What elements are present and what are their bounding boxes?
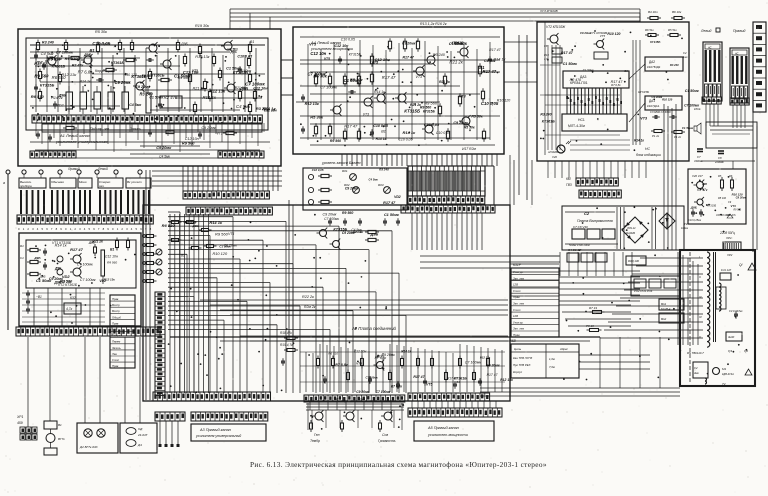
svg-text:С1 50мк: С1 50мк xyxy=(449,42,465,46)
svg-text:R6 510: R6 510 xyxy=(47,57,61,62)
svg-text:R10 120: R10 120 xyxy=(662,97,673,101)
svg-text:R14 1к: R14 1к xyxy=(51,96,63,100)
svg-text:К107ЮД2: К107ЮД2 xyxy=(647,65,661,69)
svg-text:Прав: Прав xyxy=(112,321,119,325)
svg-text:С12 10н: С12 10н xyxy=(310,51,326,56)
svg-text:С7 100мк: С7 100мк xyxy=(237,69,252,73)
svg-text:Корпус: Корпус xyxy=(513,370,523,374)
svg-text:С1: С1 xyxy=(20,256,24,260)
svg-text:2208 50Гц: 2208 50Гц xyxy=(719,231,735,235)
svg-text:3: 3 xyxy=(79,227,81,231)
svg-text:Прк ТРВ РЕЗ: Прк ТРВ РЕЗ xyxy=(513,363,531,367)
svg-text:С9 20мк: С9 20мк xyxy=(156,146,172,150)
svg-text:R10 120: R10 120 xyxy=(497,99,510,103)
svg-text:R1: R1 xyxy=(20,244,24,248)
svg-text:В1: В1 xyxy=(181,254,185,258)
svg-text:R21 2к: R21 2к xyxy=(439,80,450,84)
svg-text:А1 Левый канал: А1 Левый канал xyxy=(59,133,91,138)
svg-text:Д9Б: Д9Б xyxy=(33,256,41,260)
svg-text:R12 13к: R12 13к xyxy=(195,55,209,59)
svg-text:МЛТ-4-30и: МЛТ-4-30и xyxy=(568,124,585,128)
svg-text:5: 5 xyxy=(42,227,44,231)
svg-text:Стоп: Стоп xyxy=(112,358,120,362)
svg-text:Указ ур.: Указ ур. xyxy=(513,320,524,324)
svg-text:С12 10н: С12 10н xyxy=(354,350,367,354)
svg-text:5: 5 xyxy=(136,227,138,231)
svg-text:R21 2к: R21 2к xyxy=(193,86,205,90)
svg-text:С4 5мк: С4 5мк xyxy=(369,177,379,181)
svg-text:R01: R01 xyxy=(342,169,348,173)
svg-text:III: III xyxy=(699,295,702,299)
svg-text:Лев: Лев xyxy=(359,397,365,401)
svg-text:7: 7 xyxy=(98,227,100,231)
svg-text:В4 16л: В4 16л xyxy=(648,10,658,14)
svg-text:R10 120: R10 120 xyxy=(607,32,620,36)
svg-text:КТ361Б: КТ361Б xyxy=(52,65,66,69)
svg-text:С9 20мк: С9 20мк xyxy=(453,121,469,125)
svg-text:КЦ402Б: КЦ402Б xyxy=(626,232,635,235)
svg-text:2: 2 xyxy=(121,227,123,231)
svg-text:С8: С8 xyxy=(544,44,548,48)
svg-text:Зап. лев: Зап. лев xyxy=(513,302,524,306)
svg-text:Подстр. зап.: Подстр. зап. xyxy=(90,127,110,131)
svg-text:R13 1,2к R16 2к: R13 1,2к R16 2к xyxy=(420,22,447,26)
svg-text:С7: С7 xyxy=(697,155,701,159)
svg-text:1: 1 xyxy=(117,227,119,231)
svg-text:С10 0,05: С10 0,05 xyxy=(341,38,355,42)
svg-text:!: ! xyxy=(751,266,752,270)
svg-text:R9 560: R9 560 xyxy=(215,231,229,236)
svg-text:R17 47: R17 47 xyxy=(344,123,358,128)
svg-text:Р1 2к: Р1 2к xyxy=(652,134,660,138)
svg-text:VT3: VT3 xyxy=(363,113,369,117)
svg-text:R5 30к: R5 30к xyxy=(310,114,324,119)
svg-text:V26 V27: V26 V27 xyxy=(692,174,703,178)
svg-text:R17 47: R17 47 xyxy=(383,201,396,205)
svg-text:R5 30к: R5 30к xyxy=(350,77,364,82)
svg-text:С12 10н: С12 10н xyxy=(105,255,118,259)
svg-text:R6 510: R6 510 xyxy=(31,94,45,99)
svg-text:А3 Правый канал: А3 Правый канал xyxy=(199,428,232,432)
svg-text:В1: В1 xyxy=(624,69,628,73)
svg-text:VD9-12: VD9-12 xyxy=(627,227,636,230)
svg-text:8: 8 xyxy=(103,227,105,231)
svg-text:R9 560: R9 560 xyxy=(178,76,189,80)
svg-text:С7 100мк: С7 100мк xyxy=(77,263,93,267)
svg-text:R14 1к: R14 1к xyxy=(209,220,223,225)
svg-text:9В: 9В xyxy=(335,397,339,401)
svg-text:R6 510: R6 510 xyxy=(65,56,79,61)
svg-text:1: 1 xyxy=(70,227,72,231)
svg-text:С9 20мк: С9 20мк xyxy=(98,42,111,46)
svg-text:С9 20мк: С9 20мк xyxy=(402,41,416,45)
svg-text:В1: В1 xyxy=(110,247,114,251)
svg-text:Запись: Запись xyxy=(112,346,121,350)
svg-text:уровень записи Баланс: уровень записи Баланс xyxy=(321,161,361,165)
svg-text:R12 13к: R12 13к xyxy=(61,72,77,77)
svg-text:Цепь: Цепь xyxy=(514,347,522,351)
svg-text:ДА2: ДА2 xyxy=(649,60,655,64)
svg-text:VD2: VD2 xyxy=(394,195,401,199)
svg-text:Б1/2В-4: Б1/2В-4 xyxy=(661,307,671,311)
svg-text:КТ315Б: КТ315Б xyxy=(650,40,660,44)
svg-text:С10 0,25мк: С10 0,25мк xyxy=(688,219,702,222)
svg-text:Ген: Ген xyxy=(314,433,320,437)
svg-text:1: 1 xyxy=(23,227,25,231)
svg-text:3: 3 xyxy=(32,227,34,231)
svg-text:С7 100мк: С7 100мк xyxy=(80,278,96,282)
svg-text:Адрес: Адрес xyxy=(559,347,568,351)
svg-text:R5 30к: R5 30к xyxy=(95,30,107,34)
svg-text:ГВЗ: ГВЗ xyxy=(566,183,572,187)
svg-text:R5 30к: R5 30к xyxy=(464,125,475,129)
svg-text:RS ТВК110-7: RS ТВК110-7 xyxy=(687,351,704,355)
svg-text:ХР1: ХР1 xyxy=(16,415,24,419)
svg-text:R12 13к: R12 13к xyxy=(60,280,72,284)
svg-text:С9 20мк: С9 20мк xyxy=(114,80,131,85)
svg-text:100мк: 100мк xyxy=(681,227,689,230)
svg-text:5: 5 xyxy=(89,227,91,231)
svg-text:VT3: VT3 xyxy=(640,117,647,121)
svg-text:4: 4 xyxy=(131,227,133,231)
svg-text:С9 20мк: С9 20мк xyxy=(382,353,396,357)
svg-text:Правый: Правый xyxy=(68,167,80,171)
svg-text:7,0м: 7,0м xyxy=(549,365,555,369)
svg-text:R2 47к: R2 47к xyxy=(727,213,736,217)
svg-text:С12 10н: С12 10н xyxy=(351,230,363,234)
svg-text:И17 R2м: И17 R2м xyxy=(462,147,476,151)
svg-text:КЗ2: КЗ2 xyxy=(70,296,76,300)
svg-text:Д9Б: Д9Б xyxy=(690,205,698,209)
svg-text:R9 560: R9 560 xyxy=(107,261,117,265)
svg-text:9: 9 xyxy=(107,227,109,231)
svg-text:VT5: VT5 xyxy=(309,43,317,47)
svg-text:R21 2к: R21 2к xyxy=(92,239,103,243)
svg-text:Q3: Q3 xyxy=(728,349,732,353)
svg-text:8: 8 xyxy=(56,227,58,231)
svg-text:Воспр: Воспр xyxy=(112,309,120,313)
svg-text:С9 20мк: С9 20мк xyxy=(135,85,151,89)
svg-text:R14 1к: R14 1к xyxy=(55,244,67,248)
svg-text:С9 20мк: С9 20мк xyxy=(345,187,359,191)
svg-text:R14 1к: R14 1к xyxy=(401,350,411,354)
svg-text:зап.: зап. xyxy=(98,184,105,188)
svg-text:АЛ102Бм: АЛ102Бм xyxy=(547,151,559,154)
svg-text:V: V xyxy=(699,335,702,339)
svg-text:0: 0 xyxy=(18,227,20,231)
svg-text:7: 7 xyxy=(51,227,53,231)
svg-text:R9 560: R9 560 xyxy=(142,74,153,78)
svg-text:R3 240: R3 240 xyxy=(670,63,679,67)
svg-text:К107ДА1: К107ДА1 xyxy=(647,104,660,108)
svg-text:КТ315Б: КТ315Б xyxy=(349,53,362,57)
svg-text:Кан ТРВ ЛУПЗ: Кан ТРВ ЛУПЗ xyxy=(513,356,532,360)
svg-text:С9 20мк: С9 20мк xyxy=(652,95,663,99)
svg-text:4мк: 4мк xyxy=(694,371,699,375)
svg-text:VT5: VT5 xyxy=(371,61,379,65)
svg-text:Левый: Левый xyxy=(97,167,108,171)
svg-text:1,0м: 1,0м xyxy=(549,357,555,361)
svg-text:R7 6,8к: R7 6,8к xyxy=(391,385,403,389)
svg-text:прибора: прибора xyxy=(20,184,32,188)
svg-text:R10 120: R10 120 xyxy=(213,252,228,256)
svg-text:Запись: Запись xyxy=(130,127,141,131)
svg-text:Стоп: Стоп xyxy=(513,289,521,293)
svg-text:3: 3 xyxy=(126,227,128,231)
svg-text:С3 0,047мк: С3 0,047мк xyxy=(729,309,743,313)
svg-text:R2 47к: R2 47к xyxy=(72,63,84,67)
svg-text:R7 6,8к: R7 6,8к xyxy=(611,83,621,87)
svg-text:R6: R6 xyxy=(729,174,733,178)
svg-text:С12 10н: С12 10н xyxy=(253,87,268,91)
svg-text:II: II xyxy=(699,275,701,279)
svg-text:С9 20мк: С9 20мк xyxy=(736,196,747,200)
svg-text:С2: С2 xyxy=(694,366,698,370)
svg-text:R12 13к: R12 13к xyxy=(305,102,320,106)
svg-text:Т2: Т2 xyxy=(684,222,688,226)
svg-text:R17 47: R17 47 xyxy=(489,48,502,52)
svg-text:ХУЗ КП103В: ХУЗ КП103В xyxy=(539,9,558,13)
svg-text:КТ361Б: КТ361Б xyxy=(454,377,467,381)
svg-text:R18 47к: R18 47к xyxy=(280,331,292,335)
svg-text:VT3: VT3 xyxy=(459,95,466,99)
svg-text:R14 1к: R14 1к xyxy=(376,137,387,141)
svg-text:Д9Б: Д9Б xyxy=(701,183,707,186)
svg-text:ХР1: ХР1 xyxy=(725,236,732,240)
svg-text:IV: IV xyxy=(699,315,703,319)
svg-text:Моно: Моно xyxy=(79,180,87,184)
svg-text:VT5: VT5 xyxy=(426,382,432,386)
svg-text:R17 47: R17 47 xyxy=(487,373,498,377)
svg-text:С9 20мк: С9 20мк xyxy=(580,31,592,35)
svg-text:R9 560: R9 560 xyxy=(342,211,353,215)
svg-text:Правый: Правый xyxy=(733,29,745,33)
svg-text:~В1: ~В1 xyxy=(36,295,42,299)
svg-text:R3 240: R3 240 xyxy=(42,40,55,44)
svg-text:С9 20мк: С9 20мк xyxy=(201,126,216,130)
svg-text:3н00: 3н00 xyxy=(728,335,735,339)
svg-text:R14 1к: R14 1к xyxy=(202,95,216,100)
svg-text:Обычная: Обычная xyxy=(51,180,64,184)
svg-text:АС: АС xyxy=(707,46,712,50)
svg-text:С1 50мк: С1 50мк xyxy=(685,89,699,93)
svg-text:R9 560: R9 560 xyxy=(227,47,238,51)
svg-text:С7 100мк: С7 100мк xyxy=(465,361,482,365)
svg-text:Левый: Левый xyxy=(700,29,711,33)
svg-text:R7 19: R7 19 xyxy=(589,306,597,310)
svg-text:С4 5мк: С4 5мк xyxy=(236,104,251,109)
svg-text:С4 5мк: С4 5мк xyxy=(159,155,170,159)
svg-text:0: 0 xyxy=(112,227,114,231)
svg-text:Прав: Прав xyxy=(112,364,119,368)
svg-text:С7 100мк: С7 100мк xyxy=(320,85,337,90)
svg-text:В1: В1 xyxy=(479,65,485,70)
svg-text:500мк 1500 200м: 500мк 1500 200м xyxy=(569,243,590,247)
svg-text:С7 100мк: С7 100мк xyxy=(56,49,74,54)
svg-text:М1: М1 xyxy=(722,367,726,371)
svg-text:12В: 12В xyxy=(513,283,518,287)
svg-text:А2 Плата соединений: А2 Плата соединений xyxy=(351,326,397,331)
svg-text:R19 4,7к: R19 4,7к xyxy=(280,343,293,347)
svg-text:С7 100мк: С7 100мк xyxy=(324,217,339,221)
svg-text:С9 20мк: С9 20мк xyxy=(223,243,237,247)
svg-text:Д2 ВГ7к-03С: Д2 ВГ7к-03С xyxy=(79,445,99,449)
svg-text:С2: С2 xyxy=(683,51,687,55)
svg-text:R14 1к: R14 1к xyxy=(80,80,91,84)
svg-text:VT5: VT5 xyxy=(228,232,234,236)
svg-text:Стоп: Стоп xyxy=(513,308,521,312)
svg-text:ОД: ОД xyxy=(138,427,143,431)
svg-text:КТ361Б: КТ361Б xyxy=(151,74,165,78)
svg-text:РО2 РО3 РО4: РО2 РО3 РО4 xyxy=(634,289,653,293)
svg-text:2: 2 xyxy=(74,227,76,231)
svg-text:НС: НС xyxy=(645,147,650,151)
svg-text:С1 50мк: С1 50мк xyxy=(563,62,577,66)
svg-text:R3 240: R3 240 xyxy=(379,167,389,171)
svg-text:R5 30к: R5 30к xyxy=(313,74,327,79)
svg-text:Перем: Перем xyxy=(112,340,120,344)
svg-text:КТ361Б: КТ361Б xyxy=(542,119,555,123)
svg-text:R2м 2к: R2м 2к xyxy=(304,305,316,309)
svg-text:ДА3: ДА3 xyxy=(580,75,587,79)
svg-text:НС1: НС1 xyxy=(578,118,585,122)
svg-text:6: 6 xyxy=(46,227,48,231)
svg-text:В1: В1 xyxy=(89,48,95,53)
svg-text:4: 4 xyxy=(37,227,39,231)
svg-text:ВА2: ВА2 xyxy=(661,317,667,321)
svg-text:усилителя универсального: усилителя универсального xyxy=(55,139,108,144)
svg-text:2: 2 xyxy=(27,227,29,231)
svg-text:R19 30к: R19 30к xyxy=(195,24,209,28)
svg-text:R17 47: R17 47 xyxy=(403,56,415,60)
svg-text:QI: QI xyxy=(739,263,742,267)
svg-text:С1 50мк: С1 50мк xyxy=(682,126,694,130)
svg-text:Прав: Прав xyxy=(112,297,119,301)
svg-text:R2 47к: R2 47к xyxy=(697,188,708,192)
svg-text:0: 0 xyxy=(65,227,67,231)
svg-text:Д9Б: Д9Б xyxy=(191,224,199,228)
svg-text:4,7к: 4,7к xyxy=(66,307,73,311)
svg-text:В6 10к: В6 10к xyxy=(672,10,682,14)
svg-text:А5 Правый канал: А5 Правый канал xyxy=(427,426,460,430)
svg-text:VT2 КП103Ж: VT2 КП103Ж xyxy=(546,25,566,29)
svg-text:6: 6 xyxy=(140,227,142,231)
svg-text:R17 47: R17 47 xyxy=(561,51,574,55)
svg-text:усилителя универсальный: усилителя универсальный xyxy=(195,434,241,438)
svg-text:В1: В1 xyxy=(58,423,62,427)
svg-text:R6 510: R6 510 xyxy=(162,223,176,228)
svg-text:Т2: Т2 xyxy=(722,382,726,386)
svg-text:С1 50мк: С1 50мк xyxy=(384,213,400,217)
svg-text:R2 47к: R2 47к xyxy=(164,95,178,100)
svg-text:9: 9 xyxy=(60,227,62,231)
svg-text:С9 20мк: С9 20мк xyxy=(486,364,500,368)
svg-text:а: а xyxy=(3,181,5,185)
svg-text:R5 51к: R5 51к xyxy=(668,28,677,32)
svg-text:К31Р: К31Р xyxy=(513,263,522,267)
svg-text:В1: В1 xyxy=(381,130,386,134)
svg-text:С10 0,05: С10 0,05 xyxy=(398,137,412,141)
svg-text:VT3: VT3 xyxy=(415,75,422,79)
svg-text:R12 13к: R12 13к xyxy=(480,356,491,360)
svg-text:R17 47: R17 47 xyxy=(382,75,396,80)
svg-text:Воспр: Воспр xyxy=(112,303,120,307)
svg-text:АС: АС xyxy=(734,52,739,56)
svg-text:Д9Б: Д9Б xyxy=(180,42,188,46)
svg-text:R12 13к: R12 13к xyxy=(500,378,513,382)
svg-text:R9 560: R9 560 xyxy=(330,139,341,143)
svg-text:С9 20мк: С9 20мк xyxy=(322,212,336,216)
svg-text:R5: R5 xyxy=(718,174,722,178)
svg-text:VD2: VD2 xyxy=(62,274,71,279)
svg-text:С9 20мк: С9 20мк xyxy=(356,390,369,394)
svg-text:R0Д 130: R0Д 130 xyxy=(628,259,639,263)
svg-text:R9 560: R9 560 xyxy=(182,140,195,145)
svg-text:R9 560: R9 560 xyxy=(424,101,438,106)
svg-text:12В: 12В xyxy=(513,314,518,318)
svg-text:Вх усилит: Вх усилит xyxy=(127,180,142,184)
svg-text:1мк: 1мк xyxy=(683,55,688,59)
svg-text:усилитель мощности: усилитель мощности xyxy=(427,433,469,437)
svg-text:Лев: Лев xyxy=(111,352,117,356)
svg-text:R3 240: R3 240 xyxy=(139,92,153,97)
svg-text:С12 10н: С12 10н xyxy=(183,70,199,75)
svg-text:Рис. 6.13. Электрическая пр: Рис. 6.13. Электрическая принципиальная … xyxy=(250,460,547,469)
svg-text:Д9Б: Д9Б xyxy=(83,53,92,57)
svg-text:R22 2к: R22 2к xyxy=(302,295,314,299)
svg-text:R6 51к: R6 51к xyxy=(645,28,654,32)
svg-text:Д9Б: Д9Б xyxy=(370,231,379,236)
svg-text:Д9Б: Д9Б xyxy=(239,86,248,91)
svg-text:С10 0,05: С10 0,05 xyxy=(424,123,440,127)
svg-text:Д4: Д4 xyxy=(137,443,142,447)
svg-text:4: 4 xyxy=(84,227,86,231)
svg-text:VT5: VT5 xyxy=(600,34,606,38)
svg-text:I: I xyxy=(699,255,700,259)
svg-text:С10 0,05: С10 0,05 xyxy=(312,168,324,172)
svg-text:С12 10н: С12 10н xyxy=(264,109,277,113)
svg-text:2200мк: 2200мк xyxy=(714,160,725,164)
svg-text:ВА1: ВА1 xyxy=(661,302,667,306)
svg-text:Общий: Общий xyxy=(112,315,121,319)
svg-text:КДВ-4У4А: КДВ-4У4А xyxy=(722,373,734,376)
svg-text:R03: R03 xyxy=(378,183,384,187)
svg-text:Тембр: Тембр xyxy=(310,439,320,443)
svg-text:R9 560: R9 560 xyxy=(733,208,741,211)
svg-text:6: 6 xyxy=(93,227,95,231)
svg-text:С7 100мк: С7 100мк xyxy=(366,376,379,380)
svg-text:VD2: VD2 xyxy=(57,103,64,107)
svg-text:В1: В1 xyxy=(250,40,254,44)
svg-text:24-04Т: 24-04Т xyxy=(137,433,149,437)
svg-text:VT5: VT5 xyxy=(356,362,362,366)
svg-text:С8: С8 xyxy=(718,156,722,160)
svg-text:459: 459 xyxy=(17,421,23,425)
svg-text:R3 240: R3 240 xyxy=(540,112,551,116)
svg-text:С7 С8 V39: С7 С8 V39 xyxy=(573,225,588,229)
svg-text:Коррекция: Коррекция xyxy=(95,69,113,73)
svg-text:Зап. лев: Зап. лев xyxy=(513,327,524,331)
svg-text:Сов: Сов xyxy=(382,433,388,437)
svg-text:Д9Б: Д9Б xyxy=(54,266,62,270)
svg-text:R3 240: R3 240 xyxy=(433,53,446,57)
svg-text:R17 47: R17 47 xyxy=(70,247,84,252)
svg-text:В1: В1 xyxy=(456,380,460,384)
svg-text:R14 1к: R14 1к xyxy=(634,138,644,142)
svg-text:R17 47: R17 47 xyxy=(413,375,425,379)
svg-text:V20: V20 xyxy=(552,155,557,159)
svg-text:VD2: VD2 xyxy=(99,279,106,283)
